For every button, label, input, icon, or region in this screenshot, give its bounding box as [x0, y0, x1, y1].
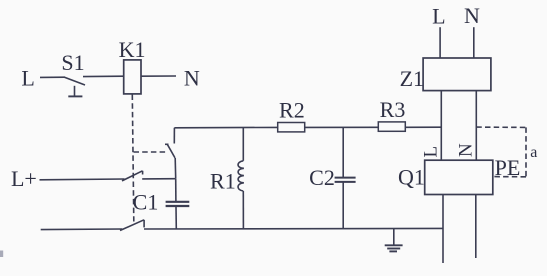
- svg-text:N: N: [455, 143, 476, 157]
- svg-text:R1: R1: [210, 168, 236, 193]
- svg-text:L: L: [421, 146, 442, 158]
- svg-text:N: N: [184, 66, 200, 91]
- svg-text:K1: K1: [119, 37, 146, 62]
- svg-text:R2: R2: [279, 98, 305, 123]
- svg-text:C2: C2: [309, 165, 335, 190]
- svg-text:L+: L+: [11, 166, 37, 191]
- svg-text:a: a: [530, 144, 537, 161]
- svg-text:L: L: [432, 4, 445, 29]
- svg-text:N: N: [464, 3, 480, 28]
- svg-text:PE: PE: [495, 155, 521, 180]
- svg-text:S1: S1: [61, 50, 84, 75]
- svg-text:Z1: Z1: [400, 66, 424, 91]
- svg-text:R3: R3: [380, 97, 406, 122]
- svg-text:Q1: Q1: [398, 164, 425, 189]
- svg-text:L: L: [21, 65, 34, 90]
- svg-text:C1: C1: [133, 189, 159, 214]
